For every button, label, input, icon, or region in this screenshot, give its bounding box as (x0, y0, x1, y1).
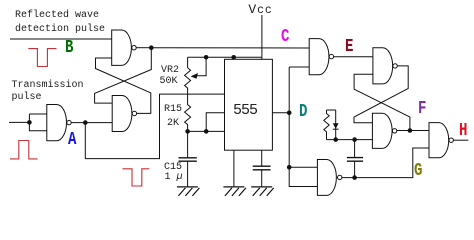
node C wire (U1a out to U2a input) (151, 47, 309, 49)
node B (65, 39, 73, 57)
ground control cap (251, 187, 274, 196)
junction R15 bottom (185, 129, 190, 134)
junction transmission input tie (27, 120, 32, 125)
junction 555 pin4 (231, 55, 236, 60)
node C (281, 28, 289, 46)
nand gate U1a (reflected wave) (112, 30, 137, 65)
nand gate U2c (317, 160, 342, 196)
junction coupling cap bottom (352, 175, 357, 180)
wire R15 bottom to 555 pin7 (188, 130, 225, 132)
wire 555 pin3 output node D (272, 112, 289, 114)
resistor VR2 50K (185, 57, 191, 94)
arrow VR2 wiper head (191, 73, 198, 79)
waveform node A pulse (red negative) (123, 169, 150, 186)
wire U2b out to latch2 diagonal to U2d upper input (354, 66, 408, 123)
label reflected wave detection pulse (15, 11, 99, 21)
nand gate U1c (latch lower) (112, 96, 136, 132)
wire node D vertical to U2a hook and down to U2c (289, 67, 309, 167)
wire node A: U1b out to U1c lower input (71, 122, 112, 124)
power Vcc lead (261, 15, 263, 57)
nand gate U4 output (429, 123, 453, 158)
nand gate U2a (309, 39, 333, 75)
node G (414, 162, 422, 180)
wire node A down-right-up to 555 trigger pin2 (85, 94, 224, 159)
wire RD top bridge (327, 109, 336, 111)
label Vcc (248, 5, 272, 16)
resistor R pulse stretcher (324, 110, 329, 140)
wire node B input (10, 38, 112, 40)
junction node D (287, 111, 292, 116)
wire node G: U2c out right up to U4 lower input (342, 148, 429, 178)
wire 555 pin1 ground lead (233, 150, 235, 187)
node H (459, 122, 467, 140)
wire U2d lower input rail (327, 139, 373, 141)
junction coupling cap top (352, 137, 357, 142)
label C15 1u (164, 163, 182, 173)
diode D pulse stretcher (333, 110, 339, 140)
wire U2c lower input L (289, 167, 317, 186)
junction node A (83, 120, 88, 125)
wire 555 pin8 lead (261, 57, 263, 59)
ground 555 pin1 (223, 187, 246, 196)
node A (68, 131, 76, 149)
wire node E (334, 56, 373, 58)
junction pin6 link (204, 129, 209, 134)
wire U1b tied inputs (29, 114, 46, 131)
junction U2c upper input (287, 165, 292, 170)
capacitor control pin5 (253, 150, 271, 187)
resistor R15 2K (185, 94, 191, 131)
junction node F (408, 128, 413, 133)
wire 555 pin4 lead (233, 57, 235, 59)
junction VR2 wiper tie (204, 55, 209, 60)
junction diode bottom (333, 137, 338, 142)
wire U2b lower hook diagonal to U2d output (354, 74, 410, 130)
label R15 2K (164, 105, 182, 115)
capacitor C15 (179, 131, 197, 187)
node F (418, 100, 426, 118)
capacitor coupling (347, 140, 363, 178)
label transmission pulse (12, 81, 84, 91)
wire 555 pin6 link (206, 113, 224, 132)
label 555 (233, 105, 257, 117)
label VR2 50K (161, 66, 179, 76)
junction at U1a output (149, 45, 154, 50)
ground C15 (177, 187, 200, 196)
nand gate U1b (transmission inverter) (47, 105, 71, 141)
wire node H (453, 139, 468, 141)
wire transmission input (9, 121, 29, 123)
ic 555 box U3 (225, 59, 273, 150)
wire U1a lower input hook to diagonal to U1c output (96, 58, 151, 113)
waveform transmission pulse (red positive) (10, 141, 38, 159)
waveform reflected pulse (red negative) (28, 49, 56, 67)
wire node F to U4 upper input (397, 130, 429, 132)
wire U1a output to junction (136, 47, 151, 49)
node D (299, 103, 307, 121)
node E (345, 38, 353, 56)
wire VR2 wiper arm (195, 57, 206, 75)
wire Vcc branch rail (188, 56, 262, 58)
wire U2c upper input (289, 166, 317, 168)
wire latch feedback: U1a out down and diagonal to U1c upper input (95, 48, 152, 103)
nand gate U2d (372, 113, 396, 148)
nand gate U2b (373, 48, 397, 84)
